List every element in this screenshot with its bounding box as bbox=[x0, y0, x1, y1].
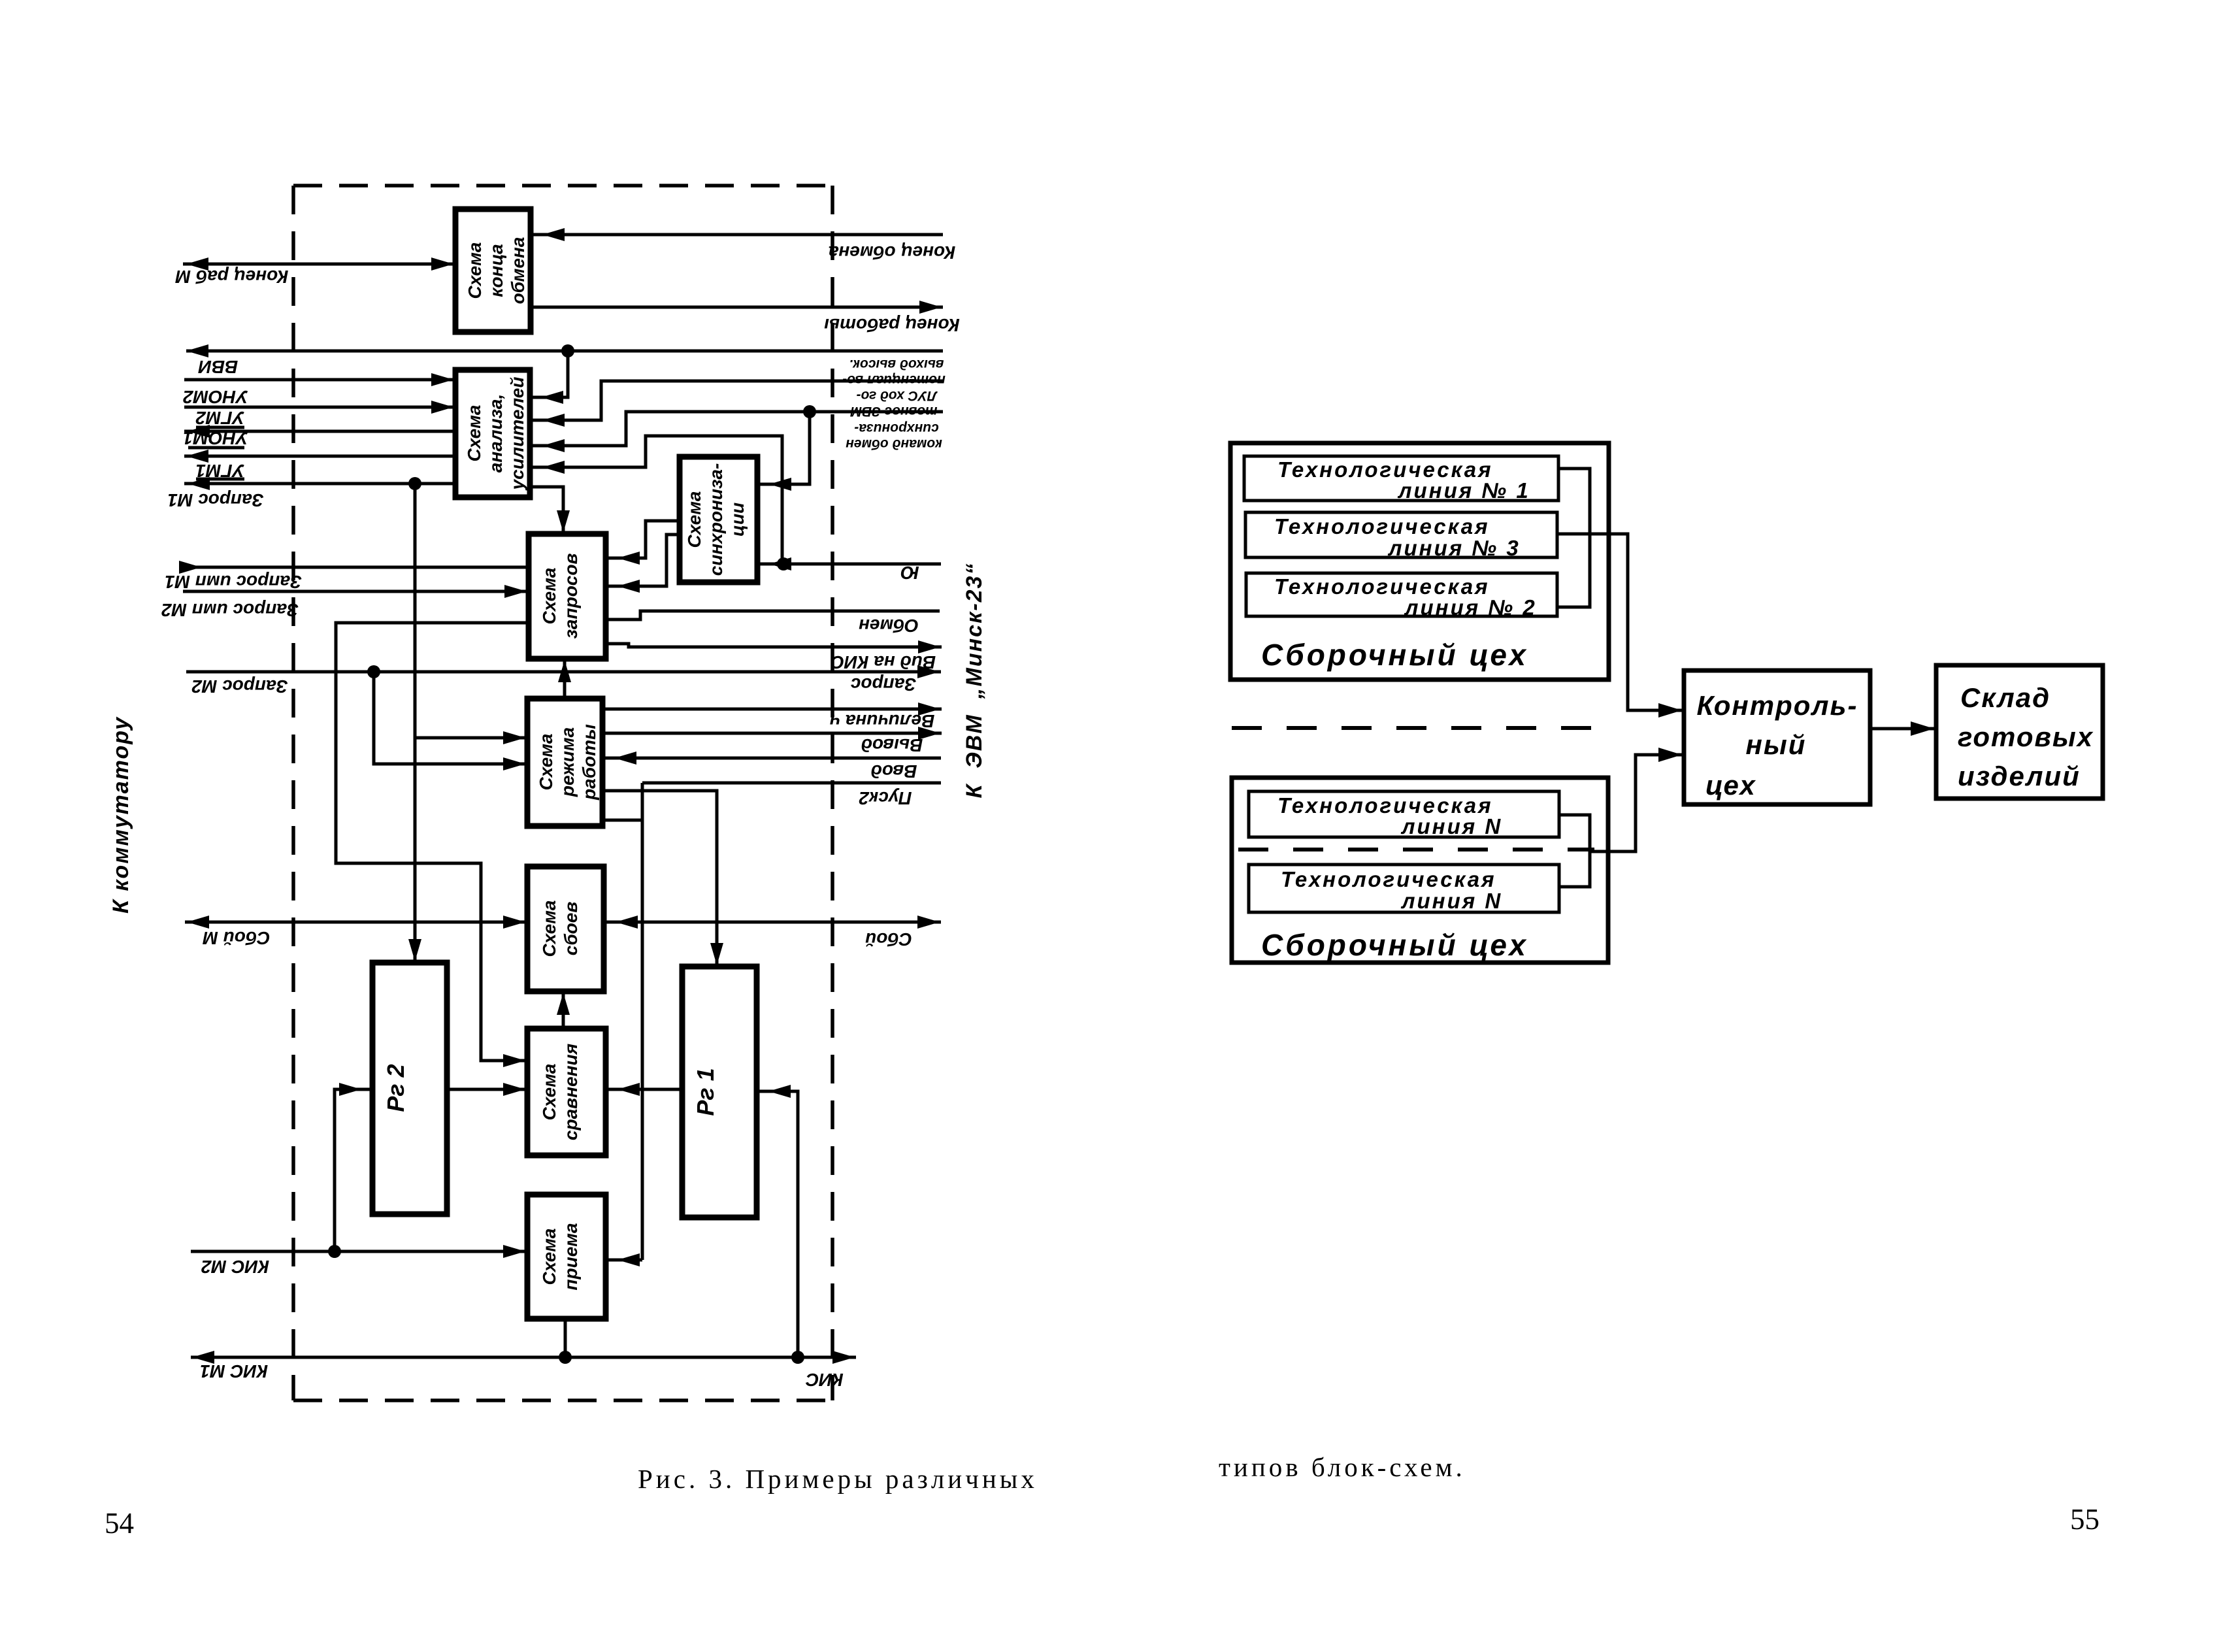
svg-text:ВВИ: ВВИ bbox=[198, 357, 238, 377]
svg-text:линия № 3: линия № 3 bbox=[1387, 536, 1521, 560]
svg-text:55: 55 bbox=[2070, 1503, 2099, 1536]
wire branch to B5 left upper bbox=[415, 731, 527, 744]
svg-text:типов блок-схем.: типов блок-схем. bbox=[1219, 1452, 1466, 1482]
wire Запрос имп М1 into B3 bbox=[179, 561, 529, 574]
wire B2 right staircase 3 to B4 right lower and right edge Ю bbox=[530, 436, 941, 570]
wire Пуск2 bbox=[642, 782, 941, 785]
svg-text:КИС: КИС bbox=[805, 1370, 843, 1390]
wire B9 top to B6 bottom bbox=[557, 991, 570, 1029]
wire Конец работы out of B1 bbox=[531, 301, 943, 314]
label right scribble block 1 bbox=[842, 357, 946, 388]
svg-text:54: 54 bbox=[105, 1507, 134, 1540]
box B9 Схема сравнения bbox=[527, 1029, 606, 1155]
svg-text:Склад: Склад bbox=[1960, 682, 2050, 713]
svg-text:Запрос: Запрос bbox=[850, 674, 916, 695]
svg-text:КИС М2: КИС М2 bbox=[201, 1257, 269, 1277]
svg-text:ный: ный bbox=[1746, 729, 1807, 760]
svg-text:Пуск2: Пуск2 bbox=[859, 788, 912, 808]
box Технологическая линия N (lower) bbox=[1249, 865, 1559, 912]
wire B5 top to B3 bottom bbox=[558, 659, 571, 699]
connector bottom lines to Контрольный цех bbox=[1558, 748, 1684, 887]
box Технологическая линия 3 bbox=[1245, 512, 1557, 557]
wire Запрос М2 long line bbox=[186, 665, 941, 678]
wire УНОМ1 bbox=[184, 425, 455, 438]
wire КИС М2 line into Схема приема bbox=[191, 1245, 527, 1258]
wire Запрос М1 bbox=[184, 477, 455, 490]
wire B4 left to B3 right lower bbox=[606, 535, 680, 593]
dashed divider between shops bbox=[1232, 726, 1610, 730]
svg-text:Рис. 3. Примеры различных: Рис. 3. Примеры различных bbox=[638, 1464, 1038, 1494]
svg-text:Конец обмена: Конец обмена bbox=[829, 242, 955, 263]
LEFT PAGE DIAGRAM bbox=[108, 186, 987, 1400]
wire B5 right down to Схема приема right bbox=[602, 783, 642, 1266]
svg-text:УНОМ2: УНОМ2 bbox=[183, 387, 248, 407]
svg-text:Сборочный цех: Сборочный цех bbox=[1261, 638, 1528, 672]
svg-text:Ввод: Ввод bbox=[871, 761, 917, 782]
dashed boundary frame of multiplexor unit bbox=[293, 186, 832, 1400]
svg-text:УГМ2: УГМ2 bbox=[195, 408, 244, 428]
wire branch from ВВИ line into B2 right bbox=[530, 351, 568, 404]
svg-text:Схемаконцаобмена: Схемаконцаобмена bbox=[465, 237, 528, 305]
wire Сбой line right part bbox=[604, 916, 941, 929]
wire B2 bottom to B3 top bbox=[530, 487, 570, 534]
box B3 Схема запросов bbox=[529, 534, 606, 659]
svg-text:Запрос имп М2: Запрос имп М2 bbox=[161, 600, 299, 620]
svg-text:КИС М1: КИС М1 bbox=[200, 1361, 268, 1381]
box B10 Схема приема bbox=[527, 1195, 606, 1319]
wire branch Запрос М2 to B5 left lower bbox=[374, 672, 527, 770]
CAPTIONS bbox=[105, 1452, 2099, 1540]
label right scribble block 2 bbox=[850, 388, 938, 419]
RIGHT PAGE DIAGRAM bbox=[1230, 443, 2103, 963]
svg-text:К ЭВМ „Минск-23“: К ЭВМ „Минск-23“ bbox=[962, 563, 987, 799]
svg-text:Вывод: Вывод bbox=[861, 735, 923, 755]
wire Контрольный цех to Склад bbox=[1870, 721, 1936, 736]
svg-text:Ю: Ю bbox=[900, 563, 919, 583]
wire B5 right down to Рг1 top bbox=[602, 791, 723, 966]
box Технологическая линия N (upper) bbox=[1249, 791, 1559, 837]
box B5 Схема режима работы bbox=[527, 699, 602, 826]
connector линия3 to Контрольный цех bbox=[1558, 534, 1684, 718]
svg-text:Запрос М1: Запрос М1 bbox=[167, 490, 263, 510]
wire Запрос имп М2 into B3 bbox=[183, 585, 529, 598]
group box Сборочный цех (bottom) bbox=[1232, 778, 1608, 963]
wire Рг2 to Схема сравнения bbox=[447, 1083, 527, 1096]
wire B10 bottom to КИС line bbox=[564, 1319, 567, 1357]
wire Конец раб М into B1 bbox=[183, 257, 455, 271]
label УГМ1 with overline bbox=[195, 461, 244, 481]
wire branch КИС up into Рг1 right bbox=[757, 1085, 798, 1357]
wire Сбой line left part bbox=[185, 916, 527, 929]
wire КИС bottom line bbox=[191, 1351, 856, 1364]
svg-text:УНОМ1: УНОМ1 bbox=[183, 428, 248, 448]
wire Вывод out of B5 bbox=[602, 727, 942, 740]
wire Рг1 to Схема сравнения bbox=[606, 1083, 682, 1096]
svg-text:ЛУС ход го-: ЛУС ход го- bbox=[857, 388, 938, 403]
svg-text:линия № 1: линия № 1 bbox=[1397, 478, 1530, 503]
svg-text:линия № 2: линия № 2 bbox=[1404, 595, 1537, 619]
dashed line inside bottom group bbox=[1238, 848, 1594, 851]
svg-text:Конец работы: Конец работы bbox=[824, 315, 960, 335]
svg-text:Сбой: Сбой bbox=[865, 929, 912, 950]
wire УГМ2 into B2 bbox=[184, 401, 455, 414]
wire Конец обмена into B1 right bbox=[531, 228, 943, 241]
wire vertical from Запрос М1 down to Рг2 bbox=[408, 484, 421, 963]
svg-text:Обмен: Обмен bbox=[859, 616, 919, 636]
svg-text:товнос ЗВМ: товнос ЗВМ bbox=[850, 404, 938, 419]
svg-text:Схемарежимаработы: Схемарежимаработы bbox=[536, 724, 599, 801]
label right scribble block 3 bbox=[846, 421, 942, 452]
wire B3 out Обмен bbox=[606, 611, 940, 619]
svg-text:Вид на КИС: Вид на КИС bbox=[831, 652, 936, 672]
svg-text:цех: цех bbox=[1705, 770, 1756, 801]
svg-text:К коммутатору: К коммутатору bbox=[108, 716, 133, 914]
wire Величина out of B5 bbox=[602, 702, 942, 716]
svg-text:Запрос имп М1: Запрос имп М1 bbox=[165, 572, 302, 592]
svg-text:выход высок.: выход высок. bbox=[849, 357, 944, 372]
svg-text:линия N: линия N bbox=[1400, 814, 1502, 838]
svg-text:Рг 2: Рг 2 bbox=[382, 1064, 409, 1112]
svg-text:Рг 1: Рг 1 bbox=[692, 1068, 719, 1115]
wire УНОМ2 into B2 bbox=[184, 373, 455, 386]
box Технологическая линия 1 bbox=[1244, 456, 1558, 501]
box B1 Схема конца обмена bbox=[455, 209, 531, 332]
box Склад готовых изделий bbox=[1936, 665, 2103, 799]
svg-text:Технологическая: Технологическая bbox=[1274, 514, 1490, 538]
wire B3 left loop down to B9 bbox=[336, 623, 529, 1067]
wire from dot down into B4 right top bbox=[757, 412, 810, 491]
svg-text:синхрониза-: синхрониза- bbox=[854, 421, 938, 436]
wire B2 right staircase 2 to right edge bbox=[530, 405, 943, 452]
box B6 Схема сбоев bbox=[527, 867, 604, 991]
svg-text:Сборочный цех: Сборочный цех bbox=[1261, 928, 1528, 962]
wire B2 right staircase 1 to right edge bbox=[530, 381, 943, 427]
box B4 Схема синхронизации bbox=[680, 457, 757, 582]
svg-text:линия N: линия N bbox=[1400, 889, 1502, 913]
wire B3 out Вид на КИС bbox=[606, 640, 942, 653]
box B8 Рг1 bbox=[682, 966, 757, 1217]
wire ВВИ long bus line bbox=[186, 344, 943, 357]
svg-text:Технологическая: Технологическая bbox=[1281, 867, 1496, 891]
svg-text:изделий: изделий bbox=[1958, 761, 2081, 791]
svg-text:УГМ1: УГМ1 bbox=[195, 461, 244, 481]
box B7 Рг2 bbox=[372, 963, 447, 1214]
connector линия1-линия2 vertical bbox=[1558, 469, 1590, 607]
svg-text:Сбой М: Сбой М bbox=[203, 928, 271, 948]
wire УГМ1 bbox=[184, 450, 455, 463]
box Контрольный цех bbox=[1684, 670, 1870, 804]
box Технологическая линия 2 bbox=[1246, 573, 1557, 616]
wire Ввод into B5 bbox=[602, 752, 941, 765]
label УНОМ1 with overline bbox=[183, 428, 248, 448]
wire branch КИС М2 up into Рг2 left bbox=[335, 1083, 372, 1251]
svg-text:Конец раб М: Конец раб М bbox=[175, 267, 288, 287]
group box Сборочный цех (top) bbox=[1230, 443, 1609, 680]
svg-text:команд обмен: команд обмен bbox=[846, 437, 942, 452]
svg-text:Запрос М2: Запрос М2 bbox=[191, 676, 288, 697]
box B2 Схема анализа усилителей bbox=[455, 370, 530, 497]
svg-text:Контроль-: Контроль- bbox=[1697, 690, 1858, 721]
svg-text:готовых: готовых bbox=[1958, 721, 2094, 752]
svg-text:потенциал во-: потенциал во- bbox=[842, 372, 946, 388]
wire B4 left to B3 right upper bbox=[606, 521, 680, 565]
